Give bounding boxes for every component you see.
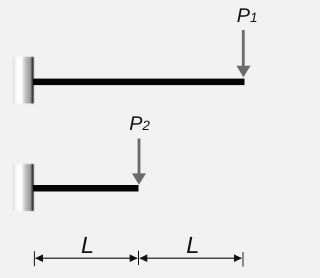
force arrow P2 [132, 139, 146, 185]
beam 2 (bottom cantilever, length L) [33, 185, 139, 192]
wall support 1 (fixed end of top beam) [13, 57, 34, 104]
svg-text:L: L [81, 232, 94, 258]
dimension line segment L (right span) [139, 254, 242, 262]
dimension extension tick middle [138, 251, 140, 265]
wall support 2 (fixed end of bottom beam) [13, 164, 34, 211]
dimension line segment L (left span) [35, 254, 138, 262]
dimension extension tick left [33, 251, 35, 266]
dimension extension tick right (gray) [242, 252, 244, 267]
svg-text:L: L [186, 232, 199, 258]
force arrow P1 [236, 30, 250, 77]
beam 1 (top cantilever, length 2L) [33, 79, 245, 86]
